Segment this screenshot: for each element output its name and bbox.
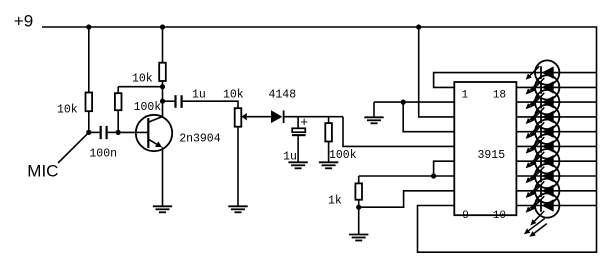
svg-text:100k: 100k — [329, 149, 357, 162]
svg-text:1: 1 — [462, 90, 469, 102]
svg-text:2n3904: 2n3904 — [179, 132, 221, 145]
svg-text:10k: 10k — [223, 89, 244, 102]
svg-text:3915: 3915 — [478, 149, 506, 162]
svg-text:9: 9 — [462, 210, 469, 222]
svg-text:1u: 1u — [283, 150, 297, 163]
svg-text:18: 18 — [493, 90, 506, 102]
svg-text:+: + — [300, 115, 308, 130]
svg-text:100k: 100k — [134, 101, 162, 114]
svg-text:MIC: MIC — [27, 161, 58, 180]
svg-text:1k: 1k — [328, 195, 342, 208]
svg-text:100n: 100n — [89, 148, 117, 161]
svg-text:4148: 4148 — [269, 89, 297, 102]
svg-text:1u: 1u — [192, 89, 206, 102]
svg-text:10: 10 — [493, 210, 506, 222]
svg-text:10k: 10k — [57, 103, 78, 116]
svg-text:+9: +9 — [14, 11, 33, 30]
svg-text:10k: 10k — [132, 72, 153, 85]
